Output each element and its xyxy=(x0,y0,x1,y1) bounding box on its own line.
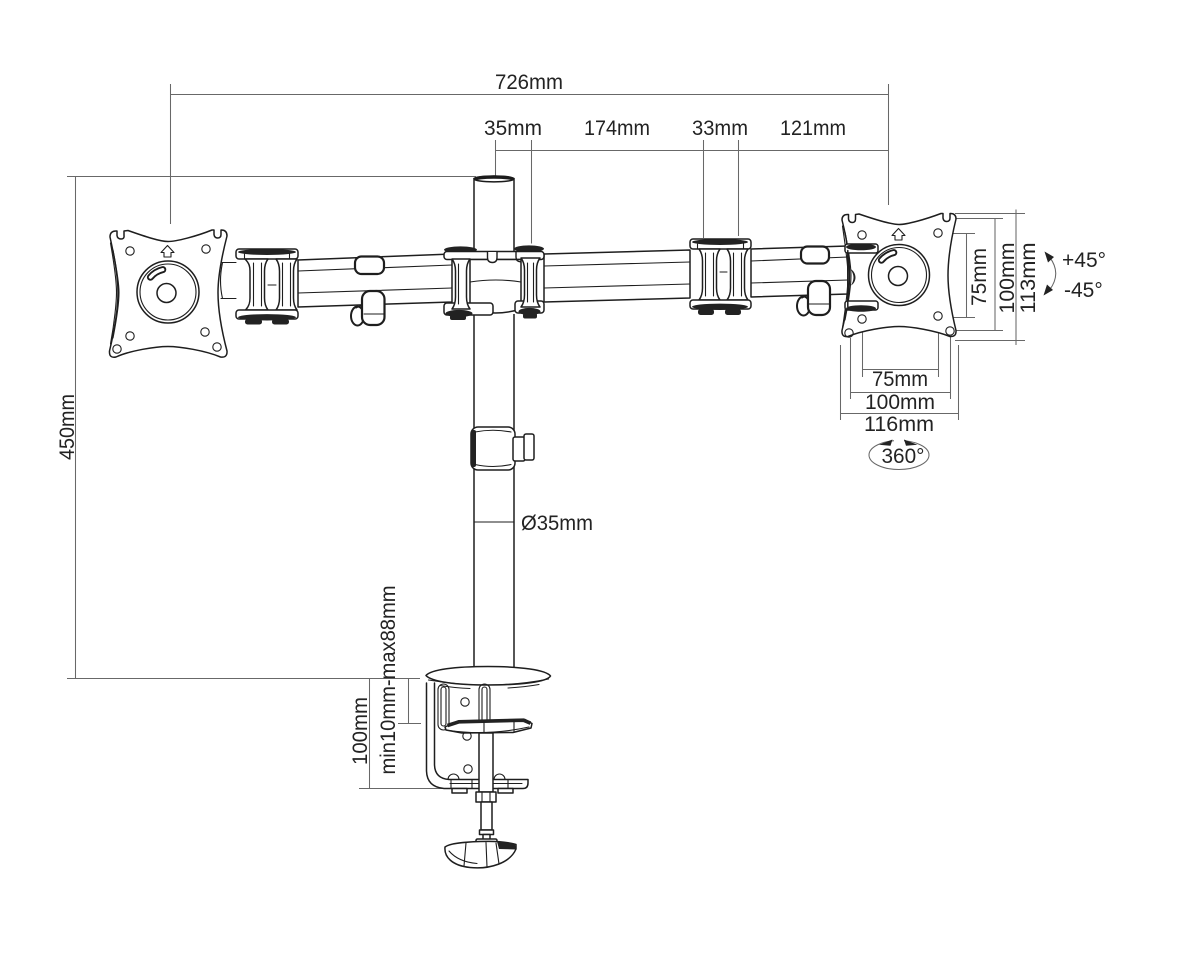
tilt arc +-45 xyxy=(1050,257,1056,290)
clamp slot right xyxy=(479,684,490,730)
svg-text:360°: 360° xyxy=(882,445,925,468)
svg-text:100mm: 100mm xyxy=(349,697,372,765)
tilt arrow down xyxy=(1044,285,1054,296)
dim plate 75mm right ext xyxy=(938,322,940,377)
PARTS xyxy=(109,176,956,868)
cable clip left-bottom xyxy=(351,291,385,326)
rotate 360 right arrow xyxy=(904,440,918,446)
right plate housing edge xyxy=(848,251,856,307)
dim plate 116mm right ext xyxy=(958,345,960,420)
right arm tube inner xyxy=(544,250,690,302)
svg-text:Ø35mm: Ø35mm xyxy=(521,512,593,535)
dim plate 100mm line xyxy=(850,392,950,394)
dim plate 75mm left ext xyxy=(862,325,864,377)
svg-text:35mm: 35mm xyxy=(484,117,542,140)
cable clip right-bottom xyxy=(797,281,830,316)
cable clip right-top xyxy=(801,247,829,264)
dim tick x703 to clevis xyxy=(703,140,705,238)
center joint top flange bar xyxy=(444,252,544,260)
svg-text:121mm: 121mm xyxy=(780,117,846,140)
dim right 75mm bottom ref xyxy=(941,317,976,319)
dim sub line 35/174/33/121 xyxy=(495,150,889,152)
dim 726mm right extension xyxy=(888,84,890,205)
clamp screw rod xyxy=(476,733,496,840)
pole upper cylinder xyxy=(474,176,514,253)
dim right 113mm vertical xyxy=(1015,210,1017,346)
dim 726mm left extension xyxy=(170,84,172,224)
left clevis joint xyxy=(236,249,298,325)
dim min10-max88 vertical xyxy=(408,678,410,723)
dim plate 100mm right ext xyxy=(950,337,952,399)
pole lower section xyxy=(474,314,514,672)
dim right 100mm top ref xyxy=(954,218,1004,220)
svg-text:100mm: 100mm xyxy=(996,243,1019,314)
svg-text:100mm: 100mm xyxy=(865,391,935,414)
svg-text:174mm: 174mm xyxy=(584,117,650,140)
dim 450mm bottom ref / desk level xyxy=(67,678,420,680)
right VESA plate xyxy=(842,214,956,338)
dim right 113mm top ref xyxy=(955,213,1025,215)
clamp top plate xyxy=(426,667,551,689)
svg-text:33mm: 33mm xyxy=(692,117,748,140)
center joint post left xyxy=(452,259,470,309)
tilt arrow up xyxy=(1045,252,1055,263)
svg-text:-45°: -45° xyxy=(1064,279,1103,302)
clamp slot left xyxy=(438,684,449,730)
dim right 100mm vertical xyxy=(994,219,996,331)
svg-text:+45°: +45° xyxy=(1062,249,1106,272)
center joint post right xyxy=(521,258,540,307)
left arm tube xyxy=(298,254,452,307)
svg-text:113mm: 113mm xyxy=(1017,243,1040,314)
dim 100mm clamp bottom ref xyxy=(359,788,468,790)
center joint top flange dark right xyxy=(514,245,544,252)
dim right 75mm vertical xyxy=(966,234,968,318)
dim 450mm vertical xyxy=(75,176,77,678)
dim tick x738 to clevis xyxy=(738,140,740,236)
dim right 75mm top ref xyxy=(941,233,976,235)
svg-text:726mm: 726mm xyxy=(495,71,563,94)
dim plate 100mm left ext xyxy=(850,338,852,399)
dim right 113mm bottom ref xyxy=(955,340,1025,342)
dim plate 116mm left ext xyxy=(840,345,842,420)
clamp C-bracket xyxy=(427,683,529,793)
right clevis joint at plate xyxy=(845,244,878,312)
clamp knob xyxy=(445,839,516,868)
DIMS xyxy=(67,84,1056,789)
dim tick x531 to joint flange xyxy=(531,140,533,244)
dim plate 116mm line xyxy=(840,413,959,415)
svg-text:75mm: 75mm xyxy=(968,248,991,306)
dim 450mm top ref xyxy=(67,176,476,178)
collar clamp on pole xyxy=(471,427,534,470)
clamp middle plate xyxy=(445,720,532,734)
dim 100mm clamp vertical xyxy=(369,678,371,788)
rotate 360 ellipse xyxy=(869,441,929,470)
svg-text:116mm: 116mm xyxy=(864,413,934,436)
svg-text:min10mm-max88mm: min10mm-max88mm xyxy=(377,586,400,775)
33mm clevis joint xyxy=(690,239,751,315)
right arm tube outer xyxy=(751,246,848,297)
clamp screw holes xyxy=(461,698,472,773)
right plate boss xyxy=(869,245,930,306)
dim right 100mm bottom ref xyxy=(956,330,1004,332)
center joint bottom flange left xyxy=(444,303,493,320)
dim 726mm line xyxy=(170,94,889,96)
svg-text:450mm: 450mm xyxy=(56,394,79,460)
dim plate 75mm line xyxy=(862,369,938,371)
center joint bottom flange right xyxy=(515,301,544,319)
rotate 360 left arrow xyxy=(879,440,893,446)
left plate stub tube xyxy=(221,262,237,299)
svg-text:75mm: 75mm xyxy=(872,368,928,391)
center joint top flange dark left xyxy=(444,246,477,253)
left VESA plate xyxy=(109,230,227,357)
dim tick x495 to pole top xyxy=(495,140,497,176)
dim min10-max88 bottom tick xyxy=(398,723,421,725)
cable clip left-top xyxy=(355,257,384,275)
center joint hub xyxy=(470,252,521,313)
